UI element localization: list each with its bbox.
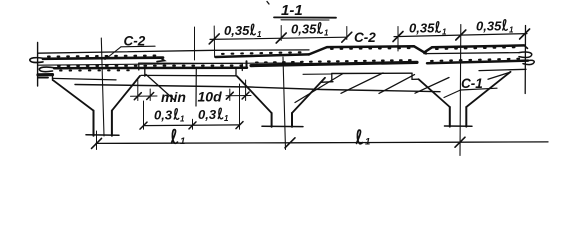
top dimension extension lines bbox=[194, 27, 196, 60]
span1 bent bar diagonal bbox=[146, 75, 175, 101]
support2 right slope bbox=[292, 78, 325, 113]
heavy bar span2 ticks bbox=[256, 60, 414, 63]
mesh C-2 support1 ticks bbox=[48, 56, 160, 57]
right section edge line bbox=[524, 26, 526, 94]
span2 bent bar diagonals bbox=[295, 74, 343, 103]
min 10d dimension left pair bbox=[131, 80, 158, 101]
mesh C-2 right end hook bbox=[157, 58, 165, 62]
0,3l1 dimension line bbox=[144, 124, 240, 127]
slab line right zone bbox=[424, 53, 519, 54]
lower bar row right zone bbox=[427, 61, 528, 64]
lower bar right end curl bbox=[523, 60, 534, 64]
label 0,35l1 #1 bbox=[224, 19, 502, 46]
support1 column bbox=[93, 111, 95, 136]
mesh support3 end hook bbox=[524, 45, 528, 48]
0,3l1 texts bbox=[154, 107, 217, 123]
mesh C-2 left end hook bbox=[30, 58, 44, 63]
min 10d text bbox=[161, 89, 222, 106]
svg-text:0,3: 0,3 bbox=[154, 108, 173, 123]
svg-text:1: 1 bbox=[224, 114, 229, 123]
mesh trapezoid over support 2 bbox=[309, 46, 426, 54]
label C-2 left with leader bbox=[105, 34, 155, 60]
right zone curl end bbox=[519, 52, 532, 57]
box span2 top bbox=[332, 72, 412, 74]
svg-text:10d: 10d bbox=[198, 89, 223, 105]
lower bar row span1 ticks bbox=[58, 64, 245, 67]
svg-text:0,35: 0,35 bbox=[224, 23, 250, 38]
span2 ledge bbox=[321, 81, 334, 84]
soffit right piece bbox=[488, 72, 510, 79]
top dimension line 0,35l1 over support 2 bbox=[210, 37, 347, 39]
box span1 end verticals bbox=[138, 63, 140, 70]
box span1 bottom bbox=[141, 74, 236, 76]
svg-text:0,35: 0,35 bbox=[476, 19, 502, 34]
slab bottom line left bbox=[38, 63, 302, 65]
label C-1 with leader bbox=[444, 76, 497, 98]
wall step block bbox=[38, 73, 53, 76]
wall face line bbox=[37, 43, 39, 87]
dimension slash arrows top row bbox=[209, 29, 529, 44]
title 1-1 bbox=[267, 2, 336, 21]
bottom dim extension under support1 bbox=[96, 131, 98, 150]
beam soffit line bbox=[75, 85, 440, 92]
lower bar under-ticks near support 1 bbox=[60, 69, 135, 71]
l1 span1 label bbox=[172, 130, 178, 144]
box span1 top bbox=[139, 62, 243, 64]
box span2 right step bbox=[411, 73, 413, 79]
support3 right slope bbox=[466, 72, 510, 107]
support1 right slope bbox=[112, 76, 140, 111]
mesh support3 ticks bbox=[436, 47, 521, 49]
svg-text:1: 1 bbox=[509, 26, 514, 35]
support2 column bbox=[271, 113, 273, 127]
svg-text:1: 1 bbox=[180, 115, 185, 124]
l1 span2 label bbox=[357, 130, 363, 144]
box span1 mid step mark bbox=[195, 68, 197, 107]
mesh span2 low ticks bbox=[222, 52, 306, 54]
svg-text:1: 1 bbox=[442, 28, 447, 37]
span3 box top line bbox=[479, 69, 526, 70]
mesh C-2 span2 low start bar bbox=[216, 54, 310, 57]
svg-text:1-1: 1-1 bbox=[281, 2, 303, 19]
bottom dim slash arrows bbox=[92, 137, 466, 148]
lower bar right end hook bbox=[246, 61, 248, 68]
lower bar right ticks bbox=[431, 59, 524, 61]
bottom dimension line bbox=[96, 142, 548, 144]
support3 column bbox=[449, 107, 451, 127]
svg-text:0,35: 0,35 bbox=[291, 22, 317, 37]
slab top line left bbox=[38, 50, 309, 53]
svg-text:1: 1 bbox=[257, 30, 262, 39]
svg-text:C-2: C-2 bbox=[354, 30, 376, 45]
lower bar left hook bbox=[39, 67, 55, 72]
mesh C-2 over support 1: bar bbox=[43, 58, 163, 59]
axis support 3 bbox=[459, 25, 462, 156]
axis support 2 bbox=[283, 57, 286, 150]
support2 left slope bbox=[237, 76, 272, 113]
top dimension line 0,35l1 over support 3 bbox=[394, 34, 527, 37]
svg-text:1: 1 bbox=[180, 136, 185, 147]
svg-text:0,3: 0,3 bbox=[198, 107, 217, 122]
mesh high run over support 3 bbox=[424, 45, 524, 52]
heavy bar row span 2 bbox=[251, 62, 417, 65]
support1 left slope bbox=[53, 80, 94, 110]
min 10d dimension right pair bbox=[226, 80, 251, 101]
support3 left slope bbox=[419, 79, 450, 107]
svg-text:0,35: 0,35 bbox=[409, 21, 435, 36]
svg-text:1: 1 bbox=[324, 29, 329, 38]
wall ledge line bbox=[53, 78, 117, 80]
svg-text:min: min bbox=[161, 89, 186, 105]
box span2 lead line bbox=[303, 73, 332, 75]
mesh trapezoid ticks below bbox=[331, 47, 410, 50]
lower bar row span 1: bar bbox=[54, 66, 247, 69]
axis support 1 bbox=[101, 38, 104, 136]
box span2 left step bbox=[331, 74, 333, 82]
